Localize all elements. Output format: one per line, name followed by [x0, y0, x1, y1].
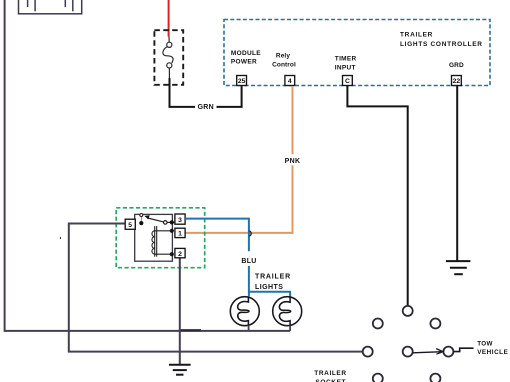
svg-text:C: C: [345, 78, 350, 85]
pin 4: [285, 76, 295, 86]
svg-text:Rely: Rely: [276, 53, 290, 60]
svg-text:MODULE: MODULE: [231, 50, 261, 57]
wire relay pin 2 to ground: [179, 258, 181, 365]
socket pin mid-center: [403, 347, 413, 357]
socket pin lower-right: [430, 374, 440, 382]
svg-text:1: 1: [178, 231, 182, 238]
svg-text:25: 25: [238, 78, 246, 85]
ground G1 (relay/lamps): [169, 365, 191, 375]
wire to TOW VEHICLE label: [454, 348, 474, 351]
fuse F1 symbol: [163, 42, 173, 68]
svg-text:22: 22: [453, 78, 461, 85]
ground G2 (controller): [446, 261, 471, 274]
label TIMER INPUT: [335, 56, 357, 72]
svg-text:GRD: GRD: [449, 62, 464, 69]
stray mark: [60, 237, 61, 239]
svg-text:LIGHTS: LIGHTS: [255, 284, 283, 291]
battery B1: [19, 0, 82, 14]
svg-text:3: 3: [178, 217, 182, 224]
svg-text:4: 4: [288, 78, 292, 85]
socket pin lower-left: [373, 374, 383, 382]
svg-text:TRAILER: TRAILER: [400, 32, 433, 39]
label Rely Control: [272, 53, 296, 69]
svg-text:TIMER: TIMER: [335, 56, 357, 63]
relay coil: [152, 226, 172, 257]
svg-text:LIGHTS CONTROLLER: LIGHTS CONTROLLER: [400, 41, 483, 48]
wire battery negative return (left vertical + bottom run): [5, 0, 291, 331]
label TOW VEHICLE: [477, 341, 508, 356]
svg-text:TOW: TOW: [477, 341, 493, 348]
wire BLU relay pin 3 to lamps: [185, 219, 290, 297]
socket pin top: [403, 306, 413, 316]
socket pin mid-left: [363, 347, 373, 357]
svg-text:GRN: GRN: [198, 104, 214, 111]
relay pin 1: [175, 228, 185, 237]
lamp L2: [273, 297, 302, 331]
wire fuse lead bottom: [168, 68, 170, 78]
pin 25: [237, 76, 247, 86]
svg-text:2: 2: [178, 251, 182, 258]
wire pin C to trailer socket top pin: [347, 86, 407, 306]
svg-text:5: 5: [128, 222, 132, 229]
pin 22: [452, 76, 462, 86]
relay pin 2: [175, 248, 185, 257]
wire hop blue over pink: [249, 231, 251, 236]
svg-text:TRAILER: TRAILER: [255, 274, 291, 281]
relay pin 3: [175, 214, 185, 224]
wire overlap segment near ground: [179, 329, 201, 331]
label MODULE POWER: [231, 50, 261, 66]
switch arrow mid-center to mid-right: [413, 349, 443, 355]
label TRAILER LIGHTS CONTROLLER: [400, 32, 483, 48]
svg-text:POWER: POWER: [231, 59, 257, 66]
wire pin 22 to ground: [456, 86, 458, 261]
fuse F1 dashed box: [154, 30, 183, 85]
svg-text:VEHICLE: VEHICLE: [477, 349, 508, 356]
svg-text:INPUT: INPUT: [335, 64, 356, 71]
relay switch arm: [140, 214, 175, 225]
relay junction dots: [139, 220, 174, 256]
relay pin 5: [125, 219, 135, 229]
relay body: [135, 214, 173, 261]
wire relay pin 5 to trailer socket (dark): [69, 224, 363, 352]
wire fuse lead top: [168, 37, 170, 43]
trailer socket pins: [363, 306, 454, 382]
label TRAILER LIGHTS: [255, 274, 291, 292]
relay K1 green dashed box: [116, 208, 205, 268]
wire PNK pin 4 to relay pin 1: [185, 86, 292, 233]
wire RED battery to fuse: [168, 0, 170, 37]
wire GRN fuse to pin 25: [170, 78, 242, 107]
socket pin upper-left: [373, 319, 383, 329]
lamp L1: [230, 297, 259, 332]
controller U1 dashed box: [224, 20, 490, 86]
svg-text:BLU: BLU: [241, 258, 256, 265]
label TRAILER SOCKET: [314, 370, 346, 382]
svg-text:TRAILER: TRAILER: [314, 370, 346, 377]
svg-text:PNK: PNK: [285, 158, 301, 165]
socket pin upper-right: [430, 319, 440, 329]
svg-text:Control: Control: [272, 62, 296, 69]
pin C: [343, 76, 353, 86]
socket pin mid-right: [443, 347, 453, 357]
